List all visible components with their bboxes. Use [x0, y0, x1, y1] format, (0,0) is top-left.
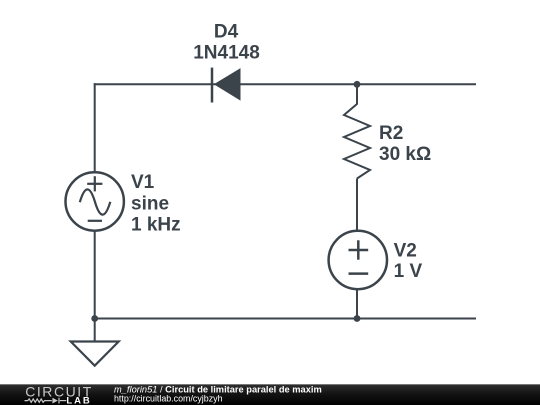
svg-text:http://circuitlab.com/cyjbzyh: http://circuitlab.com/cyjbzyh — [114, 394, 223, 404]
svg-text:LAB: LAB — [66, 396, 91, 405]
wire resistor to V2 — [356, 179, 358, 232]
node bottom-left junction — [91, 315, 98, 322]
wire left vertical lower — [94, 231, 96, 320]
svg-text:R2: R2 — [379, 123, 403, 144]
CircuitLab logo wire + resistor + diode — [25, 398, 67, 404]
wire top horizontal — [94, 83, 476, 85]
wire ground stub — [94, 319, 96, 342]
svg-text:30 kΩ: 30 kΩ — [379, 144, 431, 165]
ground — [71, 342, 119, 366]
wire right vertical upper — [356, 84, 358, 104]
svg-text:sine: sine — [131, 193, 169, 214]
svg-text:1 V: 1 V — [394, 261, 423, 282]
svg-text:D4: D4 — [214, 21, 239, 42]
svg-text:1 kHz: 1 kHz — [131, 215, 181, 236]
resistor R2 — [344, 104, 370, 179]
node bottom junction — [354, 315, 361, 322]
svg-text:1N4148: 1N4148 — [193, 43, 260, 64]
wire V2 to bottom — [356, 289, 358, 319]
diode D4 — [212, 68, 241, 103]
svg-text:V1: V1 — [131, 172, 155, 193]
voltage source V2 — [329, 231, 387, 289]
wire left vertical upper — [94, 83, 96, 172]
wire bottom horizontal — [94, 318, 476, 320]
node top junction — [354, 81, 361, 88]
voltage source V1 — [66, 172, 124, 230]
svg-text:V2: V2 — [394, 241, 417, 262]
